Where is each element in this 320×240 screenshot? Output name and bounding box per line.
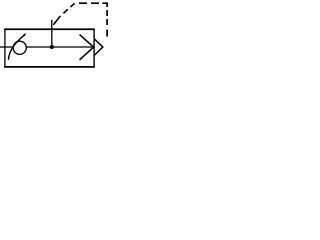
pilot line dashed horizontal dash 2 [91, 2, 99, 4]
pilot line dashed vertical dash 1 [106, 10, 108, 16]
pilot line dashed horizontal dash 1 [79, 2, 87, 4]
outlet triangle (open, apex outside box) [94, 39, 103, 56]
component enclosure box: left edge [4, 29, 6, 68]
arrowhead of adjustment arrow [23, 33, 26, 36]
flow direction chevron arrow [80, 35, 94, 60]
pilot line dashed diagonal segment 1 [53, 16, 60, 25]
pilot line dashed diagonal segment 2 [63, 9, 67, 13]
wire: pilot stem up from junction [51, 20, 53, 47]
adjustment arrow (curved slash through circle) [8, 35, 25, 60]
wire: flow line (circle to arrow apex) [26, 46, 93, 48]
pilot line dashed vertical dash 2 [106, 19, 108, 25]
measuring orifice circle B1 [13, 41, 26, 54]
pilot line dashed corner dash [103, 3, 108, 7]
wire: inlet flow line (left stub to circle) [0, 46, 13, 48]
component enclosure box: right edge [93, 29, 95, 68]
pilot line dashed vertical dash 3 [106, 30, 108, 37]
component enclosure box: bottom edge [4, 66, 95, 68]
component enclosure box: top edge [4, 28, 95, 30]
pilot line dashed diagonal segment 3 [70, 3, 74, 7]
junction dot (node) [50, 45, 54, 49]
